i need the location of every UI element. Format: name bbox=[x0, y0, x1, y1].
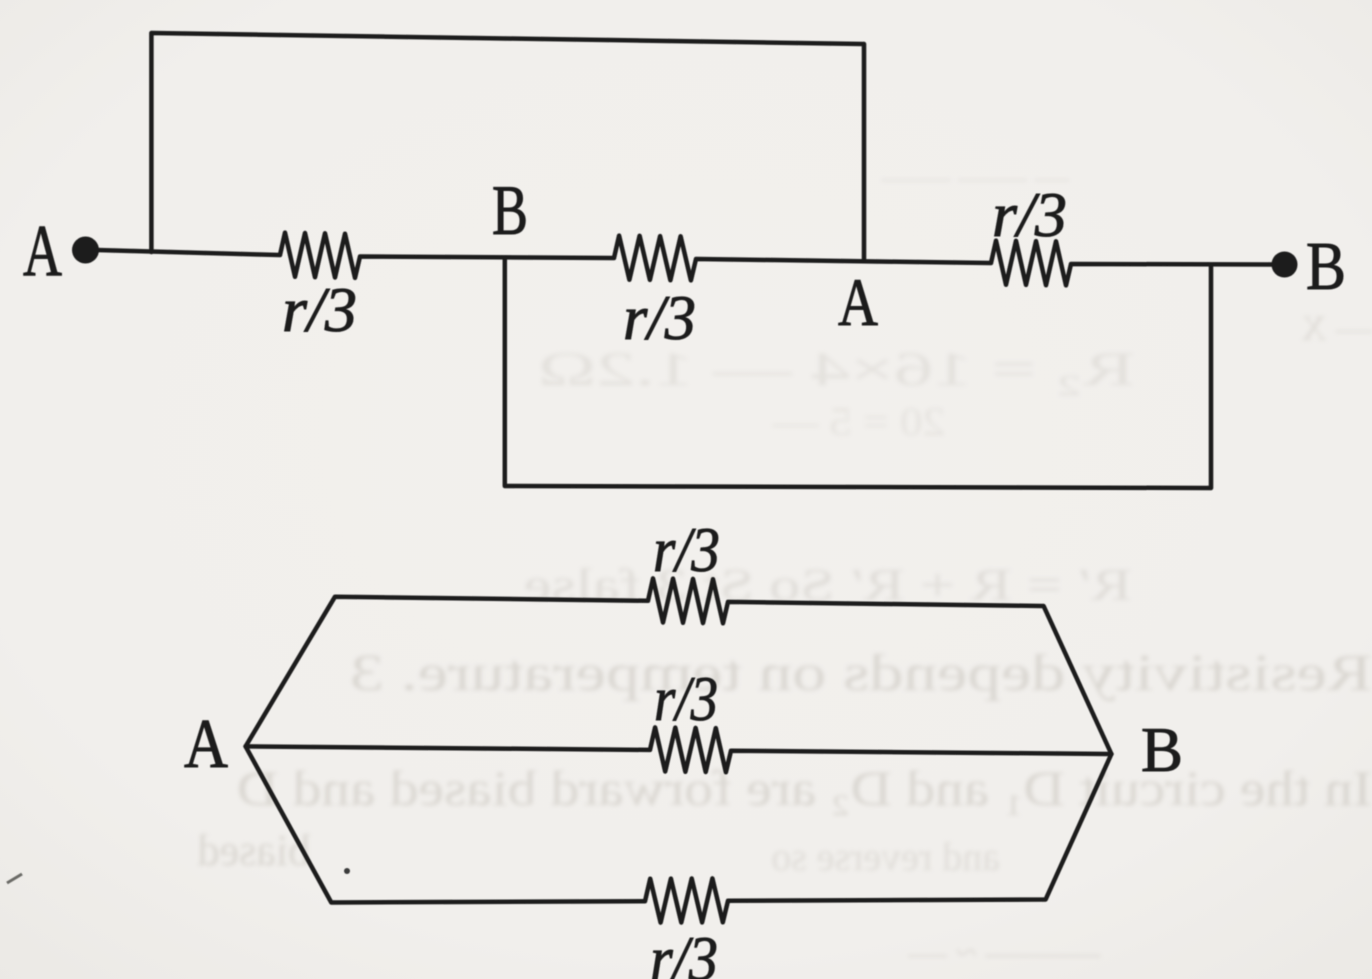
svg-text:A: A bbox=[23, 210, 62, 291]
svg-text:r/3: r/3 bbox=[623, 282, 696, 353]
svg-text:r/3: r/3 bbox=[654, 663, 718, 734]
svg-text:——— ~ —: ——— ~ — bbox=[907, 932, 1101, 974]
svg-text:and reverse so: and reverse so bbox=[771, 834, 1000, 879]
svg-text:— X: — X bbox=[1301, 308, 1372, 348]
svg-text:B: B bbox=[1141, 714, 1183, 785]
svg-text:r/3: r/3 bbox=[653, 514, 720, 585]
svg-text:r/3: r/3 bbox=[650, 923, 718, 979]
svg-text:A: A bbox=[838, 264, 878, 340]
svg-text:r/3: r/3 bbox=[992, 179, 1067, 250]
svg-text:r/3: r/3 bbox=[282, 274, 357, 345]
svg-text:B: B bbox=[492, 172, 528, 250]
svg-text:B: B bbox=[1306, 228, 1346, 304]
svg-text:Resistivity depends on tempera: Resistivity depends on temperature. 3 bbox=[350, 645, 1372, 702]
svg-text:In the circuit D₁ and D₂ are f: In the circuit D₁ and D₂ are forward bia… bbox=[237, 760, 1372, 816]
svg-text:A: A bbox=[184, 706, 228, 783]
svg-text:20 = 5 —: 20 = 5 — bbox=[772, 399, 945, 444]
